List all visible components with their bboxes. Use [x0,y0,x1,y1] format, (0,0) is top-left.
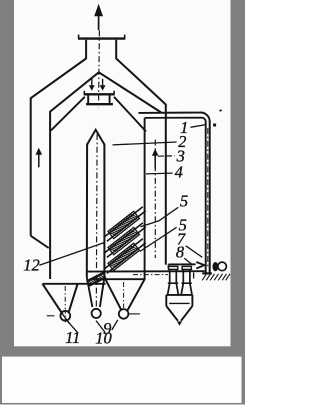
svg-text:5: 5 [180,191,188,210]
leader 10 [96,321,105,333]
svg-text:8: 8 [176,242,185,261]
louver row 1 [104,207,143,238]
inner chamber left wall [49,111,51,279]
left hopper right side [69,284,78,312]
centerline right duct [154,140,156,259]
leader 7 [186,246,203,257]
pipe bottom flange [202,272,212,274]
arrow gas outlet top [94,4,103,16]
tube right wall [103,144,105,277]
chimney wall left [85,40,87,59]
centerline tube [95,134,98,309]
louver row 3 [104,239,143,270]
leader 2 [113,142,177,145]
feeder bottom flange [86,103,113,105]
outer shell right wall [165,104,167,265]
cyclone duct top [168,263,195,265]
cyclone inlet pipe 2 [182,266,191,269]
leader 8 [184,258,192,264]
downcomer pipe outer wall [209,121,211,273]
inner hood apex right [99,72,161,112]
leader 5 [141,207,179,227]
inner hood second left [51,97,85,131]
cyclone inlet flares [168,283,170,294]
left hopper side overshoot [63,314,70,323]
fleck dot [220,110,222,112]
right hopper right side [127,280,145,312]
cyclone cone [166,306,178,321]
tube pointed top [87,130,104,145]
leader 6 [140,227,177,251]
svg-text:12: 12 [23,256,40,275]
downcomer pipe inner wall [205,122,207,273]
centerline left hopper [64,286,66,309]
feeder box walls [87,96,89,104]
leader 1 [191,125,206,128]
tube neck left [87,277,93,307]
pipe flange tick [213,124,216,127]
fan rotor [213,262,219,271]
lower floor line [92,278,145,280]
deflector upper line [89,272,105,280]
rotary valve circle 3 [119,309,129,319]
air arrow right duct [152,149,159,156]
leader 12 [39,243,104,265]
svg-text:11: 11 [65,328,80,347]
centerline right hopper [123,282,125,308]
cyclone body [166,294,192,296]
outlet duct bottom [145,118,206,123]
hood outer right [116,59,166,105]
pipe centerline [207,128,209,268]
cyclone inlet pipe 1 [169,266,178,269]
hood outer left [31,59,86,99]
rotary valve circle 1 [60,311,70,321]
feed arrow right (down) [100,85,106,91]
svg-text:10: 10 [95,329,112,348]
inner hood apex left [50,72,99,111]
feeder top flange [84,93,115,95]
left hopper left side [43,284,63,314]
chamber floor line [87,270,205,272]
duct-to-pipe reducer wedge [196,262,204,269]
leader 11 [67,320,78,332]
rotary valve circle 2 [92,309,101,318]
left duct closing slope [31,236,49,248]
white caption box [2,357,242,403]
white drawing panel [14,0,231,346]
leader 4 [146,172,173,175]
air arrow left duct [36,148,43,155]
louver deflector pocket [87,273,105,282]
right hopper left side [106,280,122,311]
left hopper mouth line [43,283,106,285]
tube left wall [86,144,88,277]
outlet duct top [139,112,210,122]
tube neck right [100,277,105,307]
centerline main vertical [98,31,101,108]
chimney flange [78,37,125,39]
ground hatching [202,274,206,281]
feed arrow left (down) [89,85,95,91]
leader 9 [112,320,118,330]
fan casing circle [218,262,227,271]
outer shell left wall [30,98,32,236]
svg-text:4: 4 [175,163,183,182]
leader 3 [158,155,175,157]
centerline cyclone duct [133,274,168,276]
cyclone outlet [177,321,182,325]
inner hood second right [114,97,146,132]
louver row 2 [104,223,143,254]
chimney wall right [115,40,117,59]
gray backdrop [0,0,245,405]
chamber right wall [144,118,146,280]
